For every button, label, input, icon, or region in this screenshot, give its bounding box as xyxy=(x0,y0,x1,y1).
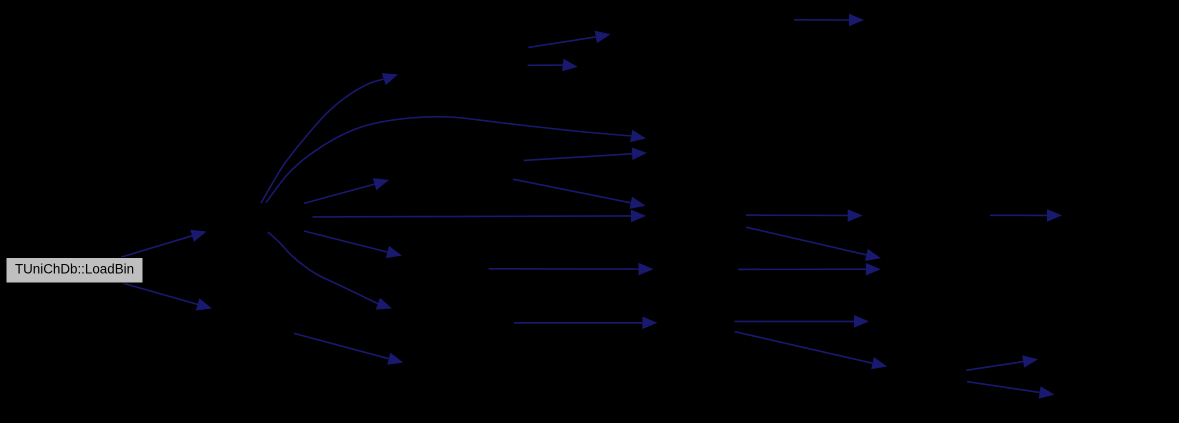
svg-text:TUniChDb::LoadBin: TUniChDb::LoadBin xyxy=(15,262,134,277)
